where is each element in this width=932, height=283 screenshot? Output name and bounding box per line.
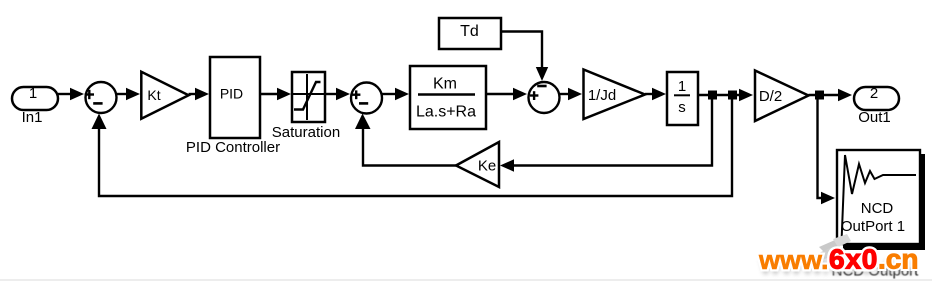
svg-text:1: 1 [678, 78, 686, 95]
svg-text:Out1: Out1 [858, 109, 891, 126]
svg-text:1: 1 [29, 85, 37, 102]
svg-text:s: s [678, 99, 686, 116]
svg-text:Kt: Kt [147, 87, 160, 103]
svg-text:NCD: NCD [861, 200, 894, 217]
wire Ke to Sum2 [355, 114, 456, 166]
svg-text:In1: In1 [22, 109, 43, 126]
wire 1/Jd to integrator [645, 88, 666, 100]
svg-text:Ke: Ke [478, 158, 496, 175]
gain Ke [456, 142, 499, 187]
output port Out1 [854, 85, 899, 126]
block Td [439, 18, 501, 49]
sum junction Sum1 [85, 82, 117, 113]
block PID Controller [186, 57, 280, 156]
svg-text:.cn: .cn [878, 244, 918, 275]
gain 1/Jd [584, 70, 646, 120]
gain D/2 [755, 71, 809, 122]
svg-text:PID: PID [220, 86, 243, 102]
sum junction Sum2 [351, 83, 382, 114]
svg-text:OutPort 1: OutPort 1 [841, 218, 905, 235]
watermark www.6x0.cn [758, 244, 918, 281]
wire Km to Sum3 [486, 88, 527, 100]
wire J3 to NCD block [818, 99, 836, 204]
wire In1 to Sum1 [58, 88, 84, 100]
transfer function Km/(La.s+Ra) [410, 66, 486, 129]
block Saturation [272, 72, 340, 141]
wire Sum2 to Km [382, 88, 409, 100]
watermark logo shape [810, 234, 851, 272]
svg-text:2: 2 [870, 85, 878, 102]
svg-text:Td: Td [460, 23, 479, 40]
block NCD OutPort 1 [837, 150, 925, 250]
svg-text:Saturation: Saturation [272, 124, 340, 141]
wire PID to Saturation [260, 88, 291, 100]
gain Kt [141, 72, 188, 119]
svg-text:Km: Km [433, 76, 457, 93]
wire J2 outer feedback to Sum1 [92, 99, 733, 196]
svg-text:6x0: 6x0 [829, 244, 878, 275]
wire Sum3 to 1/Jd [560, 88, 583, 100]
sum junction Sum3 [529, 82, 560, 113]
wire Kt to PID [189, 88, 209, 100]
wire Saturation to Sum2 [325, 88, 350, 100]
svg-text:1/Jd: 1/Jd [588, 87, 616, 104]
svg-text:www.: www. [758, 245, 829, 275]
wire Td to Sum3 [501, 32, 548, 82]
wire integrator to D/2 [698, 89, 753, 101]
wire J1 to Ke feedback [500, 99, 712, 172]
wire Sum1 to Kt [117, 88, 141, 100]
junction node J3 [815, 91, 824, 100]
integrator 1/s [667, 72, 698, 125]
svg-text:D/2: D/2 [759, 88, 782, 105]
junction node J2 [728, 91, 737, 100]
svg-text:PID Controller: PID Controller [186, 139, 280, 156]
input port In1 [12, 85, 58, 126]
junction node J1 [708, 91, 717, 100]
svg-text:La.s+Ra: La.s+Ra [416, 104, 476, 121]
bottom rule [0, 279, 932, 281]
wire D/2 to Out1 [809, 89, 853, 101]
